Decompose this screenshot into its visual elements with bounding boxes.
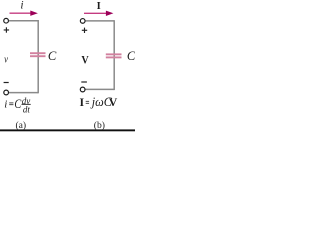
wire bottom (circuit b): [86, 88, 115, 90]
bottom terminal (circuit b): [80, 87, 85, 92]
wire right (circuit a): [37, 20, 39, 93]
plus sign (circuit a): [4, 27, 9, 32]
svg-text:C: C: [14, 98, 21, 111]
current arrow (circuit b): [84, 11, 113, 16]
minus sign (circuit a): [4, 82, 9, 83]
wire right (circuit b): [113, 20, 115, 90]
top terminal (circuit a): [4, 18, 9, 23]
equation i = C dv/dt (circuit a): [4, 96, 30, 114]
svg-text:(b): (b): [94, 120, 105, 131]
svg-text:(a): (a): [15, 120, 26, 131]
bottom rule: [0, 129, 135, 131]
svg-text:C: C: [127, 49, 135, 63]
svg-text:i: i: [4, 98, 7, 110]
svg-text:dt: dt: [23, 104, 31, 114]
current arrow (circuit a): [10, 11, 38, 16]
wire top (circuit a): [9, 20, 38, 22]
capacitor C plates (circuit b): [106, 54, 122, 57]
svg-text:V: V: [81, 54, 88, 67]
svg-text:I: I: [80, 95, 85, 109]
wire bottom (circuit a): [9, 92, 38, 94]
svg-text:v: v: [4, 54, 8, 66]
equation I = jwCV (circuit b): [80, 95, 118, 109]
plus sign (circuit b): [82, 28, 87, 33]
svg-text:V: V: [109, 95, 118, 109]
wire top (circuit b): [86, 20, 115, 22]
capacitor C plates (circuit a): [30, 53, 46, 56]
top terminal (circuit b): [80, 19, 85, 24]
svg-text:C: C: [48, 49, 57, 63]
bottom terminal (circuit a): [4, 90, 9, 95]
minus sign (circuit b): [81, 81, 87, 82]
svg-text:i: i: [20, 0, 23, 11]
svg-text:I: I: [97, 1, 101, 12]
